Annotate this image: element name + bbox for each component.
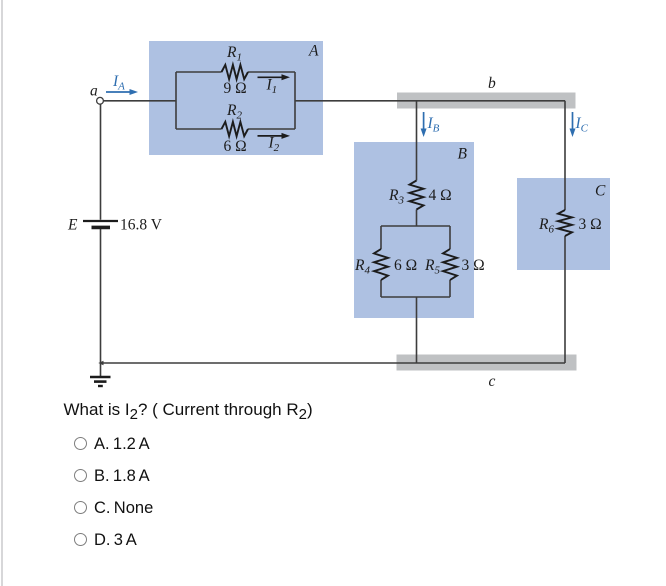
- svg-text:9 Ω: 9 Ω: [224, 80, 247, 97]
- svg-text:B: B: [458, 146, 468, 163]
- svg-text:IB: IB: [427, 115, 440, 135]
- svg-text:c: c: [489, 373, 496, 390]
- svg-text:6 Ω: 6 Ω: [224, 138, 247, 155]
- svg-text:3 Ω: 3 Ω: [462, 257, 485, 274]
- svg-text:E: E: [67, 217, 78, 234]
- svg-text:C: C: [595, 183, 606, 200]
- svg-text:6 Ω: 6 Ω: [394, 257, 417, 274]
- svg-text:IA: IA: [112, 73, 125, 93]
- svg-text:4 Ω: 4 Ω: [429, 187, 452, 204]
- svg-text:A: A: [308, 43, 319, 60]
- svg-text:16.8 V: 16.8 V: [120, 217, 163, 234]
- svg-text:a: a: [90, 83, 98, 100]
- svg-text:3 Ω: 3 Ω: [579, 216, 602, 233]
- svg-text:IC: IC: [575, 115, 589, 135]
- svg-text:b: b: [488, 75, 496, 92]
